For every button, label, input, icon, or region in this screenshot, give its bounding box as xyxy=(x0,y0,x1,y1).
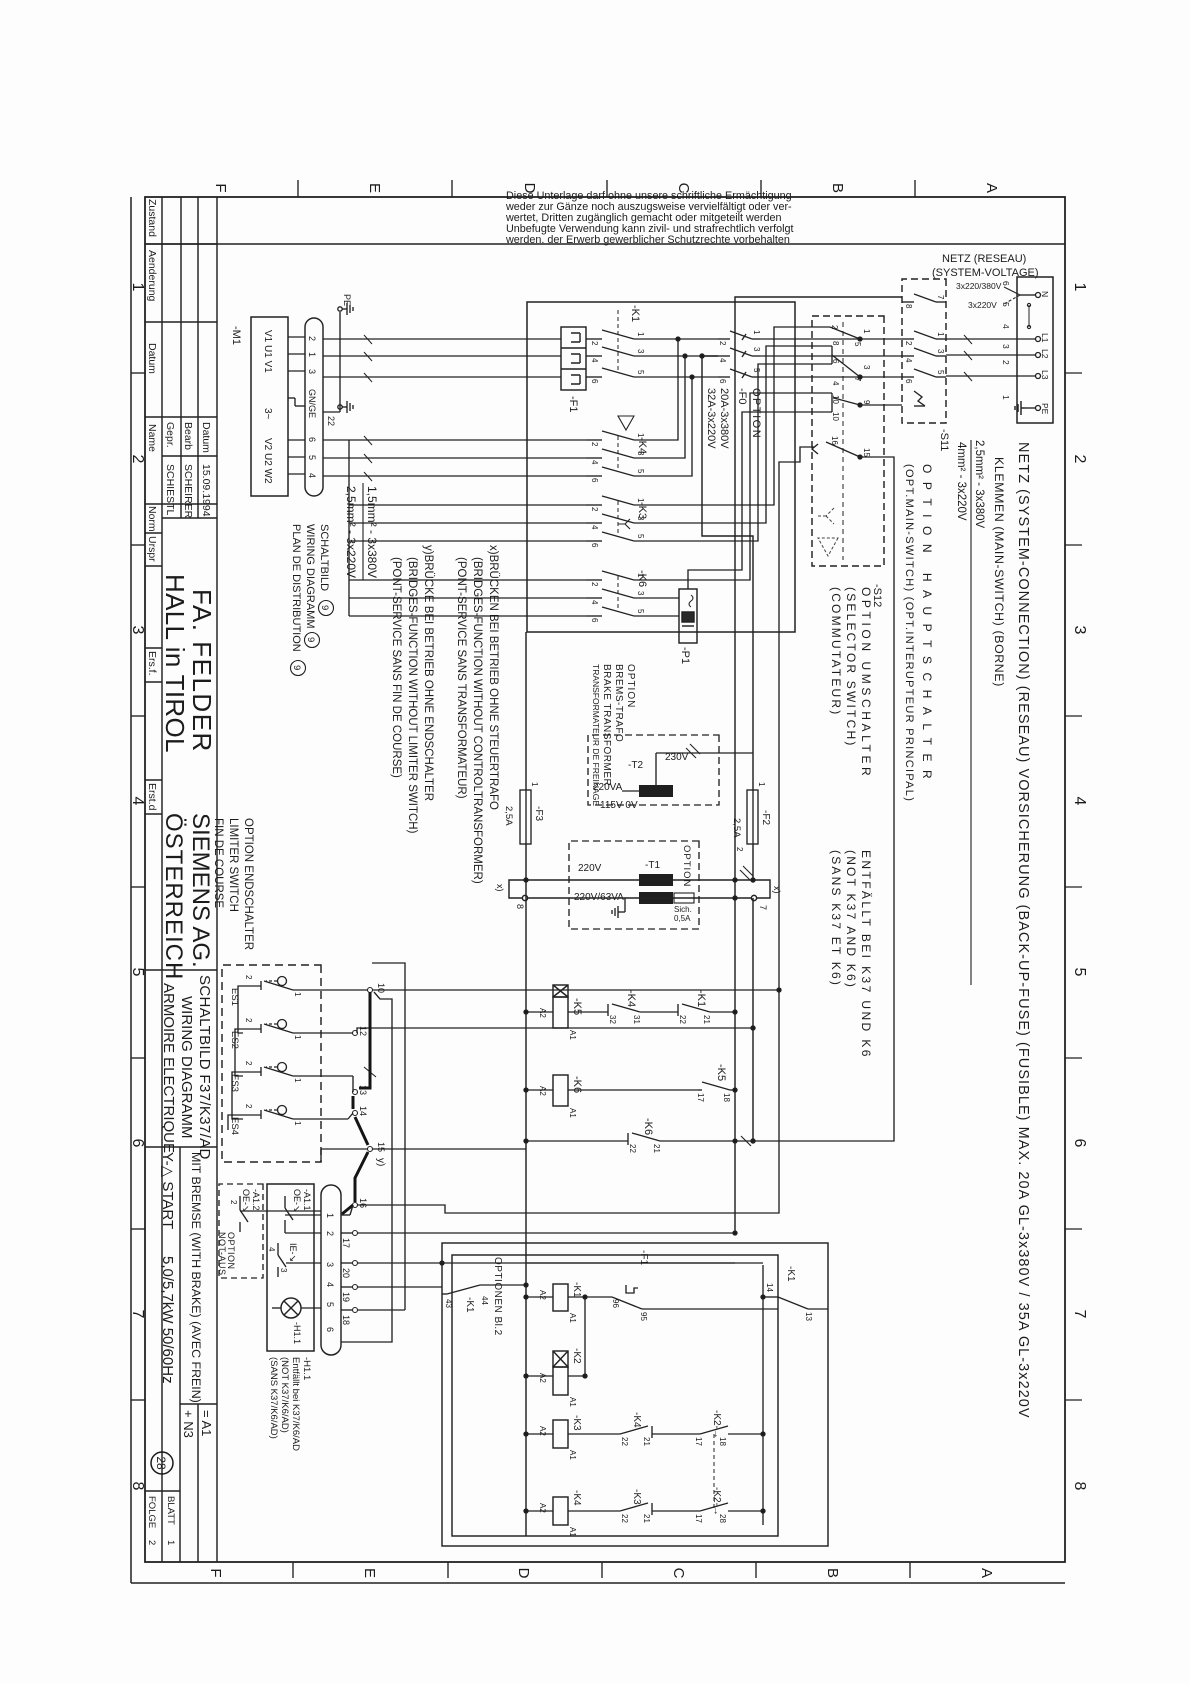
svg-text:4: 4 xyxy=(307,473,317,478)
svg-text:2: 2 xyxy=(830,325,839,330)
svg-text:115V 0V: 115V 0V xyxy=(600,800,638,811)
svg-text:14: 14 xyxy=(765,1283,774,1292)
wire motor feed U xyxy=(323,339,561,377)
svg-text:2: 2 xyxy=(1071,455,1088,464)
svg-text:7: 7 xyxy=(129,1310,146,1319)
svg-text:-K4: -K4 xyxy=(571,1490,582,1506)
svg-text:PE: PE xyxy=(342,294,352,306)
svg-text:Urspr: Urspr xyxy=(146,536,158,562)
svg-text:5: 5 xyxy=(853,342,862,347)
svg-text:2: 2 xyxy=(718,341,727,346)
svg-text:2: 2 xyxy=(735,847,744,852)
rung K6 xyxy=(524,1088,737,1092)
terminal strip X0 box xyxy=(1017,277,1053,423)
crossing ticks on motor wires xyxy=(364,335,372,481)
wires terminals up xyxy=(341,963,763,1342)
note reference digits 9 xyxy=(291,605,330,670)
svg-text:3: 3 xyxy=(636,516,645,521)
svg-text:-K4: -K4 xyxy=(625,990,637,1007)
transformer T1 windings xyxy=(639,874,673,886)
svg-text:ENTFÄLLT BEI K37 UND K6: ENTFÄLLT BEI K37 UND K6 xyxy=(859,850,873,1059)
svg-text:BLATT: BLATT xyxy=(165,1496,176,1525)
contact K1 13-14 NO top xyxy=(761,1295,828,1309)
wires A1.1 internals xyxy=(272,1215,321,1308)
svg-text:15: 15 xyxy=(862,448,871,457)
svg-text:6: 6 xyxy=(307,437,317,442)
label OPTION BREMS-TRAFO xyxy=(591,664,636,806)
note reference circles 9 xyxy=(291,601,334,676)
svg-text:-T2: -T2 xyxy=(628,760,643,771)
breaker symbol // on T2 feed xyxy=(686,744,700,758)
svg-text:2: 2 xyxy=(590,507,599,512)
svg-text:8: 8 xyxy=(1071,1482,1088,1491)
svg-text:5: 5 xyxy=(636,370,645,375)
svg-text:A2: A2 xyxy=(538,1503,547,1513)
ground 22 near oval xyxy=(338,401,353,413)
svg-text:BRAKE TRANSFORMER: BRAKE TRANSFORMER xyxy=(601,664,612,786)
frame outer border xyxy=(131,197,1065,1583)
emergency stop A1.2 dashed box xyxy=(219,1184,263,1278)
svg-text:6: 6 xyxy=(1071,1139,1088,1148)
svg-text:2: 2 xyxy=(325,1231,335,1236)
svg-text:22: 22 xyxy=(628,1144,637,1153)
wire L1 drop S11 to power box xyxy=(760,339,902,377)
svg-text:-K3: -K3 xyxy=(631,1489,642,1505)
svg-text:1: 1 xyxy=(636,498,645,503)
svg-text:-F1: -F1 xyxy=(638,1250,649,1265)
svg-text:13: 13 xyxy=(804,1312,813,1321)
dashed link K2 contacts xyxy=(713,1434,715,1511)
svg-text:21: 21 xyxy=(652,1144,661,1153)
contactor K6 contacts xyxy=(586,571,660,616)
coil K4 xyxy=(553,1497,568,1525)
svg-text:Ers.f.: Ers.f. xyxy=(146,651,158,676)
notes x) and y) xyxy=(390,545,499,884)
svg-text:(PONT-SERVICE SANS FIN DE COUR: (PONT-SERVICE SANS FIN DE COURSE) xyxy=(390,557,402,778)
svg-text:17: 17 xyxy=(694,1514,703,1523)
svg-text:-K1: -K1 xyxy=(464,1297,475,1313)
svg-text:FOLGE: FOLGE xyxy=(146,1496,157,1528)
svg-text:SCHALTBILD: SCHALTBILD xyxy=(318,524,330,591)
svg-text:9: 9 xyxy=(305,637,316,642)
label ENTFAELLT BEI K37 xyxy=(829,850,873,1059)
terminals 10 12 13 14 15 16 xyxy=(353,988,373,1208)
bridge lines x) control bypass xyxy=(509,878,770,901)
options outer box xyxy=(442,1243,828,1546)
svg-text:220VA: 220VA xyxy=(593,782,623,793)
svg-text:2: 2 xyxy=(244,1061,253,1066)
wires oval to motor box xyxy=(288,337,305,474)
contact K1 43-44 NO xyxy=(442,1283,528,1294)
wire control rail N bottom xyxy=(525,632,527,1536)
svg-text:F: F xyxy=(212,183,229,192)
options inner box xyxy=(452,1255,778,1536)
svg-text:A2: A2 xyxy=(538,1008,547,1018)
svg-text:6: 6 xyxy=(590,618,599,623)
svg-text:1: 1 xyxy=(1071,283,1088,292)
svg-text:D: D xyxy=(515,1568,532,1579)
svg-text:7: 7 xyxy=(853,377,862,382)
fuse F3 xyxy=(520,790,531,844)
svg-text:E: E xyxy=(361,1568,378,1578)
label SCHALTBILD 9 note xyxy=(290,524,330,652)
svg-text:-P1: -P1 xyxy=(679,647,691,664)
coil K1 xyxy=(553,1284,568,1311)
svg-text:1: 1 xyxy=(636,573,645,578)
svg-text:OPTION UMSCHALTER: OPTION UMSCHALTER xyxy=(859,587,873,779)
svg-text:Norm: Norm xyxy=(146,506,158,532)
terminal strip X1 oval xyxy=(305,318,323,496)
svg-text:1: 1 xyxy=(936,332,945,337)
svg-text:HALL in TIROL: HALL in TIROL xyxy=(160,574,190,753)
frame column ticks bottom xyxy=(131,373,145,1400)
K1 rung wires xyxy=(524,1295,587,1376)
svg-text:(NOT K37 AND K6): (NOT K37 AND K6) xyxy=(844,850,858,989)
svg-text:6: 6 xyxy=(129,1139,146,1148)
svg-text:22: 22 xyxy=(326,416,336,426)
frame row ticks left xyxy=(298,180,915,197)
svg-text:9: 9 xyxy=(862,400,871,405)
svg-text:4: 4 xyxy=(831,381,840,386)
svg-text:5: 5 xyxy=(936,370,945,375)
svg-text:C: C xyxy=(670,1568,687,1579)
svg-text:22: 22 xyxy=(620,1514,629,1523)
svg-text:-K1: -K1 xyxy=(629,305,641,322)
svg-text:220V: 220V xyxy=(578,863,602,874)
K3 rung contacts: K4 NC + K2 NO xyxy=(524,1426,765,1438)
svg-text:L2: L2 xyxy=(1040,349,1050,359)
svg-text:6: 6 xyxy=(904,379,913,384)
svg-text:6: 6 xyxy=(831,359,840,364)
svg-text:4mm² - 3x220V: 4mm² - 3x220V xyxy=(955,442,967,521)
svg-text:1: 1 xyxy=(1001,395,1011,400)
svg-text:A1: A1 xyxy=(568,1450,577,1460)
rung K5: wire from top rail xyxy=(524,1010,737,1014)
svg-text:4: 4 xyxy=(590,358,599,363)
svg-text:3: 3 xyxy=(862,365,871,370)
wire control rail L top (from F0 tap through F2) xyxy=(700,354,755,1143)
svg-text:4: 4 xyxy=(1071,797,1088,806)
svg-text:SCHALTBILD F37/K37/AD: SCHALTBILD F37/K37/AD xyxy=(196,975,213,1160)
svg-text:1: 1 xyxy=(752,330,761,335)
ground T1 secondary xyxy=(612,898,625,918)
svg-text:1: 1 xyxy=(293,1035,302,1040)
svg-text:L1: L1 xyxy=(1040,333,1050,343)
svg-text:32: 32 xyxy=(608,1015,617,1024)
wire K2 rung xyxy=(524,1374,587,1378)
svg-text:17: 17 xyxy=(696,1093,705,1102)
svg-text:96: 96 xyxy=(611,1299,620,1308)
frame column ticks top xyxy=(1065,373,1082,1400)
svg-text:8: 8 xyxy=(515,904,525,909)
svg-text:2,5A: 2,5A xyxy=(731,818,742,838)
svg-text:18: 18 xyxy=(341,1315,351,1325)
svg-text:IE-↘: IE-↘ xyxy=(288,1243,298,1262)
svg-text:3x220/380V: 3x220/380V xyxy=(956,281,1002,291)
pin numbers K3 main contacts xyxy=(590,498,645,548)
svg-text:1: 1 xyxy=(530,782,539,787)
svg-text:MIT BREMSE (WITH BRAKE) (AVEC: MIT BREMSE (WITH BRAKE) (AVEC FREIN) xyxy=(189,1152,203,1403)
svg-text:(SANS K37 ET K6): (SANS K37 ET K6) xyxy=(829,850,843,987)
svg-text:3: 3 xyxy=(636,451,645,456)
svg-text:-M1: -M1 xyxy=(230,326,242,345)
svg-text:2: 2 xyxy=(146,1540,157,1545)
svg-text:B: B xyxy=(824,1568,841,1578)
svg-text:22: 22 xyxy=(620,1437,629,1446)
svg-text:3x220V: 3x220V xyxy=(968,300,997,310)
svg-text:6: 6 xyxy=(590,478,599,483)
svg-text:-K1: -K1 xyxy=(785,1266,796,1282)
svg-text:NETZ (SYSTEM-CONNECTION) (RESE: NETZ (SYSTEM-CONNECTION) (RESEAU) VORSIC… xyxy=(1015,442,1031,1419)
wire from S12 to terminal 10 xyxy=(357,990,779,1149)
A1.2 contact xyxy=(240,1196,321,1232)
svg-text:SIEMENS AG.: SIEMENS AG. xyxy=(187,813,214,968)
svg-text:4: 4 xyxy=(267,1247,276,1252)
frame inner border xyxy=(145,197,1065,1562)
svg-text:-K2-→: -K2-→ xyxy=(711,1410,722,1439)
bridge y) thick wire xyxy=(342,992,370,1214)
svg-text:OE-↘: OE-↘ xyxy=(241,1189,251,1213)
svg-text:17: 17 xyxy=(694,1437,703,1446)
svg-text:1: 1 xyxy=(757,782,766,787)
contactor K4 contacts (delta) xyxy=(586,431,660,476)
svg-text:+ N3: + N3 xyxy=(181,1410,196,1438)
svg-text:E: E xyxy=(366,183,383,193)
svg-text:WIRING DIAGRAMM: WIRING DIAGRAMM xyxy=(304,524,316,629)
svg-text:3: 3 xyxy=(129,626,146,635)
S12 contact 4-10 bridge xyxy=(812,393,902,412)
svg-text:32A-3x220V: 32A-3x220V xyxy=(705,388,717,449)
svg-text:1: 1 xyxy=(129,283,146,292)
svg-text:A1: A1 xyxy=(568,1397,577,1407)
svg-text:16: 16 xyxy=(830,436,839,445)
brake module A1.1 box xyxy=(267,1184,314,1351)
S12 position symbols Y and D xyxy=(816,508,838,556)
pin numbers K4 main contacts xyxy=(590,433,645,483)
svg-text:3: 3 xyxy=(279,1268,288,1273)
svg-text:2: 2 xyxy=(590,582,599,587)
svg-text:1: 1 xyxy=(636,332,645,337)
svg-text:1: 1 xyxy=(293,992,302,997)
svg-text:4: 4 xyxy=(590,600,599,605)
svg-text:5: 5 xyxy=(1071,968,1088,977)
svg-text:2: 2 xyxy=(244,975,253,980)
svg-text:A1: A1 xyxy=(568,1108,577,1118)
delta symbol xyxy=(618,416,634,430)
svg-text:-K2: -K2 xyxy=(571,1348,582,1364)
svg-text:OPTION: OPTION xyxy=(750,388,762,439)
wires K4/K3/K6 interconnect xyxy=(323,440,586,616)
wire N drop xyxy=(946,295,1036,408)
wires K3 K6 top feeds from S12 xyxy=(660,327,812,616)
svg-text:NETZ (RESEAU): NETZ (RESEAU) xyxy=(942,253,1026,265)
svg-text:2: 2 xyxy=(590,442,599,447)
svg-text:-F0: -F0 xyxy=(736,388,748,405)
node PE motor xyxy=(323,303,353,412)
selector switch S12 dashed box xyxy=(812,316,884,566)
svg-text:y)BRÜCKE BEI BETRIEB OHNE ENDS: y)BRÜCKE BEI BETRIEB OHNE ENDSCHALTER xyxy=(422,545,434,801)
svg-text:-K3: -K3 xyxy=(571,1415,582,1431)
svg-text:4: 4 xyxy=(325,1282,335,1287)
separator line under gauge label xyxy=(970,440,972,985)
title: customer xyxy=(160,574,217,980)
svg-text:2: 2 xyxy=(307,336,317,341)
relay coil K5 with rectifier xyxy=(553,985,568,1028)
fuse Sich 0,5A xyxy=(674,893,694,903)
note H1.1 entfaellt xyxy=(268,1357,312,1451)
svg-text:-F3: -F3 xyxy=(533,806,544,821)
svg-text:1: 1 xyxy=(862,329,871,334)
svg-text:-S11: -S11 xyxy=(938,429,950,451)
svg-text:L3: L3 xyxy=(1040,370,1050,380)
pin numbers K6 main contacts xyxy=(590,573,645,623)
coil K3 xyxy=(553,1420,568,1448)
svg-text:2: 2 xyxy=(129,455,146,464)
contactor K1 main contacts xyxy=(586,330,655,377)
svg-text:OPTION: OPTION xyxy=(625,664,636,708)
svg-text:(COMMUTATEUR): (COMMUTATEUR) xyxy=(829,587,843,716)
svg-text:-H1.1: -H1.1 xyxy=(292,1322,302,1344)
svg-text:OPTION HAUPTSCHALTER: OPTION HAUPTSCHALTER xyxy=(920,464,934,787)
svg-text:(NOT K37/K6/AD): (NOT K37/K6/AD) xyxy=(279,1357,290,1433)
svg-text:4: 4 xyxy=(590,525,599,530)
svg-text:-F2: -F2 xyxy=(760,810,771,825)
svg-text:31: 31 xyxy=(632,1015,641,1024)
svg-text:-K4: -K4 xyxy=(631,1412,642,1428)
lamp H1.1 xyxy=(281,1298,301,1318)
svg-text:GN/GE: GN/GE xyxy=(307,389,317,418)
svg-text:Zustand: Zustand xyxy=(146,199,158,237)
svg-text:3: 3 xyxy=(636,591,645,596)
svg-text:10: 10 xyxy=(831,412,840,421)
svg-text:18: 18 xyxy=(718,1437,727,1446)
svg-text:SCHIESTL: SCHIESTL xyxy=(164,464,176,516)
svg-text:8: 8 xyxy=(904,304,913,309)
svg-text:N: N xyxy=(1040,291,1050,297)
svg-text:6: 6 xyxy=(718,379,727,384)
motor terminal labels xyxy=(262,330,273,484)
svg-text:(BRIDGES-FUNCTION WITHOUT CONT: (BRIDGES-FUNCTION WITHOUT CONTROLTRANSFO… xyxy=(471,557,483,884)
svg-text:9: 9 xyxy=(319,605,330,610)
svg-text:3: 3 xyxy=(307,369,317,374)
wire rail y411 from S12 pin16 to terminal 16 xyxy=(357,447,814,1213)
svg-text:2,5A: 2,5A xyxy=(503,806,514,826)
svg-text:5: 5 xyxy=(636,609,645,614)
hour counter P1 box xyxy=(679,589,697,643)
svg-text:V1 U1 V1: V1 U1 V1 xyxy=(262,330,273,373)
fuse F2 xyxy=(747,790,758,844)
coil K2 with rectifier xyxy=(553,1351,568,1395)
svg-text:werden. der Erwerb gewerbliche: werden. der Erwerb gewerblicher Schutzre… xyxy=(505,234,790,246)
relay coil K6a xyxy=(553,1075,568,1106)
svg-text:3: 3 xyxy=(1001,344,1011,349)
svg-text:= A1: = A1 xyxy=(199,1410,214,1436)
contactor K3 contacts (star) xyxy=(586,496,660,541)
svg-text:21: 21 xyxy=(642,1437,651,1446)
wire feed from S12 pin15 to K6 rung xyxy=(526,457,894,1141)
frame column labels top xyxy=(1071,283,1088,1491)
svg-text:Datum: Datum xyxy=(200,422,212,453)
svg-text:A2: A2 xyxy=(538,1290,547,1300)
label 3x220/380V (rotated) xyxy=(956,281,1002,310)
svg-text:A: A xyxy=(983,183,1000,193)
label wire gauge mains xyxy=(955,440,985,529)
svg-text:Datum: Datum xyxy=(146,343,158,374)
svg-text:-A1.1: -A1.1 xyxy=(302,1189,312,1211)
svg-text:8: 8 xyxy=(129,1482,146,1491)
svg-text:-K1: -K1 xyxy=(695,990,707,1007)
rail inside options box xyxy=(526,1263,763,1525)
svg-text:18: 18 xyxy=(722,1093,731,1102)
svg-text:x)BRÜCKEN BEI BETRIEB OHNE STE: x)BRÜCKEN BEI BETRIEB OHNE STEUERTRAFO xyxy=(487,545,499,810)
svg-text:8: 8 xyxy=(831,341,840,346)
star symbol xyxy=(618,519,630,529)
S12 contact 1-2 xyxy=(812,327,862,341)
contact K5 17-18 NO in K6 rung xyxy=(698,1082,730,1090)
K4 rung contacts: K3 NC + K2 NO xyxy=(524,1503,765,1515)
svg-text:Name: Name xyxy=(146,424,158,452)
svg-text:WIRING DIAGRAMM: WIRING DIAGRAMM xyxy=(178,996,195,1139)
svg-text:LIMITER SWITCH: LIMITER SWITCH xyxy=(227,818,239,912)
svg-text:BREMS-TRAFO: BREMS-TRAFO xyxy=(613,664,624,742)
svg-text:3: 3 xyxy=(1071,626,1088,635)
svg-text:KLEMMEN (MAIN-SWITCH) (BORNE): KLEMMEN (MAIN-SWITCH) (BORNE) xyxy=(992,457,1006,687)
svg-text:Gepr.: Gepr. xyxy=(164,422,176,448)
svg-text:-F1: -F1 xyxy=(567,396,579,413)
wire gauge label motor xyxy=(344,486,379,578)
svg-text:44: 44 xyxy=(480,1296,489,1305)
svg-text:1: 1 xyxy=(636,433,645,438)
svg-text:x): x) xyxy=(495,884,505,892)
svg-text:2,5mm² - 3x380V: 2,5mm² - 3x380V xyxy=(973,440,985,529)
svg-text:4: 4 xyxy=(904,358,913,363)
main switch S11 dashed box xyxy=(902,279,946,423)
frame column labels bottom xyxy=(129,283,146,1491)
wires T2 xyxy=(622,753,753,791)
svg-text:A1: A1 xyxy=(568,1313,577,1323)
T2 winding xyxy=(639,785,673,797)
svg-text:14: 14 xyxy=(358,1106,368,1116)
svg-text:16: 16 xyxy=(358,1198,368,1208)
svg-text:y): y) xyxy=(375,1158,386,1166)
S12 pin numbers xyxy=(830,325,871,457)
svg-text:3: 3 xyxy=(752,347,761,352)
svg-text:17: 17 xyxy=(341,1238,351,1248)
ES interconnection wires xyxy=(228,986,243,1130)
svg-text:OPTION: OPTION xyxy=(681,845,692,887)
svg-text:4: 4 xyxy=(1001,324,1011,329)
voltage selector fork 3x220/380V xyxy=(1004,287,1031,329)
svg-text:21: 21 xyxy=(702,1015,711,1024)
svg-text:28: 28 xyxy=(154,1456,168,1470)
limit switch ES1 xyxy=(243,977,321,991)
svg-text:OPTION ENDSCHALTER: OPTION ENDSCHALTER xyxy=(242,818,254,950)
svg-text:A1: A1 xyxy=(568,1030,577,1040)
svg-text:3: 3 xyxy=(636,349,645,354)
svg-text:6: 6 xyxy=(590,379,599,384)
motor M1 terminal box xyxy=(251,317,288,496)
svg-text:3: 3 xyxy=(936,349,945,354)
contact K4 31-32 NC in K5 rung xyxy=(608,1004,640,1016)
breaker F0 option: 3 poles xyxy=(655,331,760,378)
svg-text:5: 5 xyxy=(129,968,146,977)
svg-text:5: 5 xyxy=(752,368,761,373)
pin numbers S11 xyxy=(904,295,945,384)
svg-text:Bearb: Bearb xyxy=(182,422,194,450)
svg-text:x): x) xyxy=(772,886,782,894)
svg-text:-K2-→: -K2-→ xyxy=(711,1487,722,1516)
svg-text:2: 2 xyxy=(244,1104,253,1109)
